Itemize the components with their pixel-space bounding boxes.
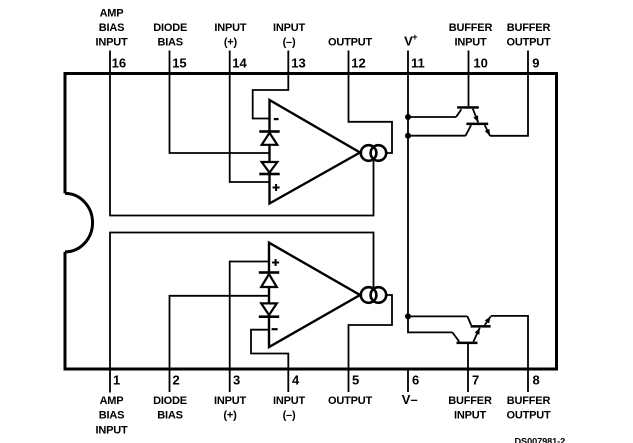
svg-text:OUTPUT: OUTPUT bbox=[506, 37, 551, 49]
svg-text:INPUT: INPUT bbox=[273, 22, 305, 34]
svg-text:AMP: AMP bbox=[100, 7, 124, 19]
svg-text:OUTPUT: OUTPUT bbox=[328, 395, 373, 407]
IC package body outline (16-pin DIP) bbox=[65, 74, 557, 370]
wire pin7 buffer input (bottom) to Q4 base bbox=[467, 344, 469, 392]
svg-text:4: 4 bbox=[292, 372, 300, 387]
U2 plus input mark bbox=[272, 259, 279, 266]
label AMP BIAS INPUT (pin 16) bbox=[95, 7, 127, 48]
svg-text:5: 5 bbox=[352, 372, 359, 387]
svg-text:13: 13 bbox=[291, 56, 305, 71]
transistor Q1 (top buffer input) bbox=[456, 106, 481, 123]
svg-text:6: 6 bbox=[412, 372, 419, 387]
diode D3 (bottom amp upper) bbox=[259, 271, 279, 287]
svg-text:BUFFER: BUFFER bbox=[507, 395, 551, 407]
svg-text:BIAS: BIAS bbox=[99, 22, 124, 34]
transistor Q4 (bottom buffer input) bbox=[452, 327, 482, 344]
label BUFFER INPUT (pin 7) bbox=[448, 395, 492, 422]
svg-text:(+): (+) bbox=[224, 37, 238, 49]
svg-text:INPUT: INPUT bbox=[95, 37, 127, 49]
wire pin11 V+ rail down to Q4 collector bbox=[408, 51, 452, 333]
svg-text:3: 3 bbox=[233, 372, 240, 387]
svg-text:(+): (+) bbox=[223, 410, 237, 422]
diode D1 (top amp upper) bbox=[259, 130, 279, 145]
svg-text:+: + bbox=[412, 32, 418, 43]
svg-text:BIAS: BIAS bbox=[157, 37, 182, 49]
svg-text:INPUT: INPUT bbox=[454, 410, 486, 422]
wire pin10 buffer input (top) to Q1 base bbox=[468, 51, 470, 107]
wire Q1 collector to V+ rail bbox=[408, 116, 456, 118]
transistor Q3 (bottom buffer output) bbox=[467, 315, 492, 328]
svg-text:DIODE: DIODE bbox=[153, 395, 187, 407]
svg-text:V–: V– bbox=[402, 392, 418, 407]
svg-text:BIAS: BIAS bbox=[99, 410, 124, 422]
wire pin2 diode bias (bottom) to D3/D4 junction bbox=[170, 296, 270, 392]
svg-text:12: 12 bbox=[351, 56, 365, 71]
label INPUT (+) (pin 3) bbox=[214, 395, 246, 422]
svg-text:2: 2 bbox=[173, 372, 180, 387]
wire pin5 output (bottom) to U2 mirror bbox=[349, 295, 393, 392]
label V+ (pin 11) bbox=[404, 32, 418, 49]
wire Q2 collector to V+ rail bbox=[408, 135, 466, 137]
svg-text:7: 7 bbox=[472, 372, 479, 387]
wire pin14 input+ (top) to U1 + input bbox=[230, 51, 270, 183]
op-amp U2 (bottom OTA) triangle bbox=[269, 243, 360, 347]
svg-text:1: 1 bbox=[113, 372, 120, 387]
transistor Q2 (top buffer output) bbox=[466, 123, 493, 137]
svg-text:BUFFER: BUFFER bbox=[448, 395, 492, 407]
svg-text:BUFFER: BUFFER bbox=[449, 22, 493, 34]
wire Q3 collector to V+ rail bbox=[408, 315, 467, 317]
U1 minus input mark bbox=[274, 118, 279, 120]
diode D4 (bottom amp lower) bbox=[259, 303, 279, 318]
svg-text:BIAS: BIAS bbox=[157, 410, 182, 422]
svg-text:INPUT: INPUT bbox=[95, 424, 127, 436]
svg-text:DS007981-2: DS007981-2 bbox=[515, 437, 566, 443]
svg-text:15: 15 bbox=[172, 56, 186, 71]
wire pin15 diode bias (top) to D1/D2 junction bbox=[170, 51, 270, 154]
diode D2 (top amp lower) bbox=[259, 162, 279, 175]
svg-text:16: 16 bbox=[112, 56, 126, 71]
label BUFFER OUTPUT (pin 8) bbox=[506, 395, 551, 422]
wire pin6 V- stub bbox=[407, 368, 409, 393]
label INPUT (-) (pin 13) bbox=[273, 22, 305, 49]
wire pin9 buffer output (top) to Q2 emitter bbox=[490, 51, 528, 136]
label BUFFER INPUT (pin 10) bbox=[449, 22, 493, 49]
wire pin16 amp bias input (top) to U1 bias bbox=[110, 51, 374, 216]
U2 output current mirror symbol bbox=[361, 287, 386, 303]
wire pin8 buffer output (bottom) to Q3 emitter bbox=[491, 316, 528, 392]
index notch bbox=[65, 193, 93, 252]
svg-text:AMP: AMP bbox=[100, 395, 124, 407]
svg-text:INPUT: INPUT bbox=[273, 395, 305, 407]
U1 plus input mark bbox=[273, 184, 280, 191]
label DIODE BIAS (pin 2) bbox=[153, 395, 187, 422]
label DIODE BIAS (pin 15) bbox=[153, 22, 187, 49]
U2 minus input mark bbox=[272, 328, 278, 330]
svg-text:(–): (–) bbox=[283, 410, 296, 422]
svg-text:14: 14 bbox=[232, 56, 247, 71]
svg-text:11: 11 bbox=[411, 56, 425, 71]
svg-text:10: 10 bbox=[473, 56, 487, 71]
svg-text:DIODE: DIODE bbox=[153, 22, 187, 34]
wire pin4 input- (bottom) to U2 - input bbox=[251, 330, 288, 392]
wire pin12 output (top) to U1 mirror bbox=[349, 51, 393, 154]
svg-text:INPUT: INPUT bbox=[214, 22, 246, 34]
label INPUT (-) (pin 4) bbox=[273, 395, 305, 422]
label BUFFER OUTPUT (pin 9) bbox=[506, 22, 551, 49]
svg-text:INPUT: INPUT bbox=[214, 395, 246, 407]
label AMP BIAS INPUT (pin 1) bbox=[95, 395, 127, 437]
label INPUT (+) (pin 14) bbox=[214, 22, 246, 49]
op-amp U1 (top OTA) triangle bbox=[270, 100, 361, 204]
U1 output current mirror symbol bbox=[361, 145, 386, 161]
wire pin13 input- (top) to U1 - input bbox=[253, 51, 289, 119]
wire pin1 amp bias input (bottom) to U2 bias bbox=[110, 233, 374, 393]
junction dot V+/Q3 collector bbox=[405, 313, 411, 319]
svg-text:BUFFER: BUFFER bbox=[507, 22, 551, 34]
svg-text:OUTPUT: OUTPUT bbox=[506, 410, 551, 422]
svg-text:INPUT: INPUT bbox=[454, 37, 486, 49]
wire pin3 input+ (bottom) to U2 + input bbox=[230, 262, 269, 393]
junction dot V+/Q2 collector bbox=[405, 133, 411, 139]
svg-text:OUTPUT: OUTPUT bbox=[328, 37, 373, 49]
svg-text:9: 9 bbox=[532, 56, 539, 71]
svg-text:(–): (–) bbox=[283, 37, 296, 49]
junction dot V+/Q1 collector bbox=[405, 114, 411, 120]
svg-text:8: 8 bbox=[533, 372, 540, 387]
